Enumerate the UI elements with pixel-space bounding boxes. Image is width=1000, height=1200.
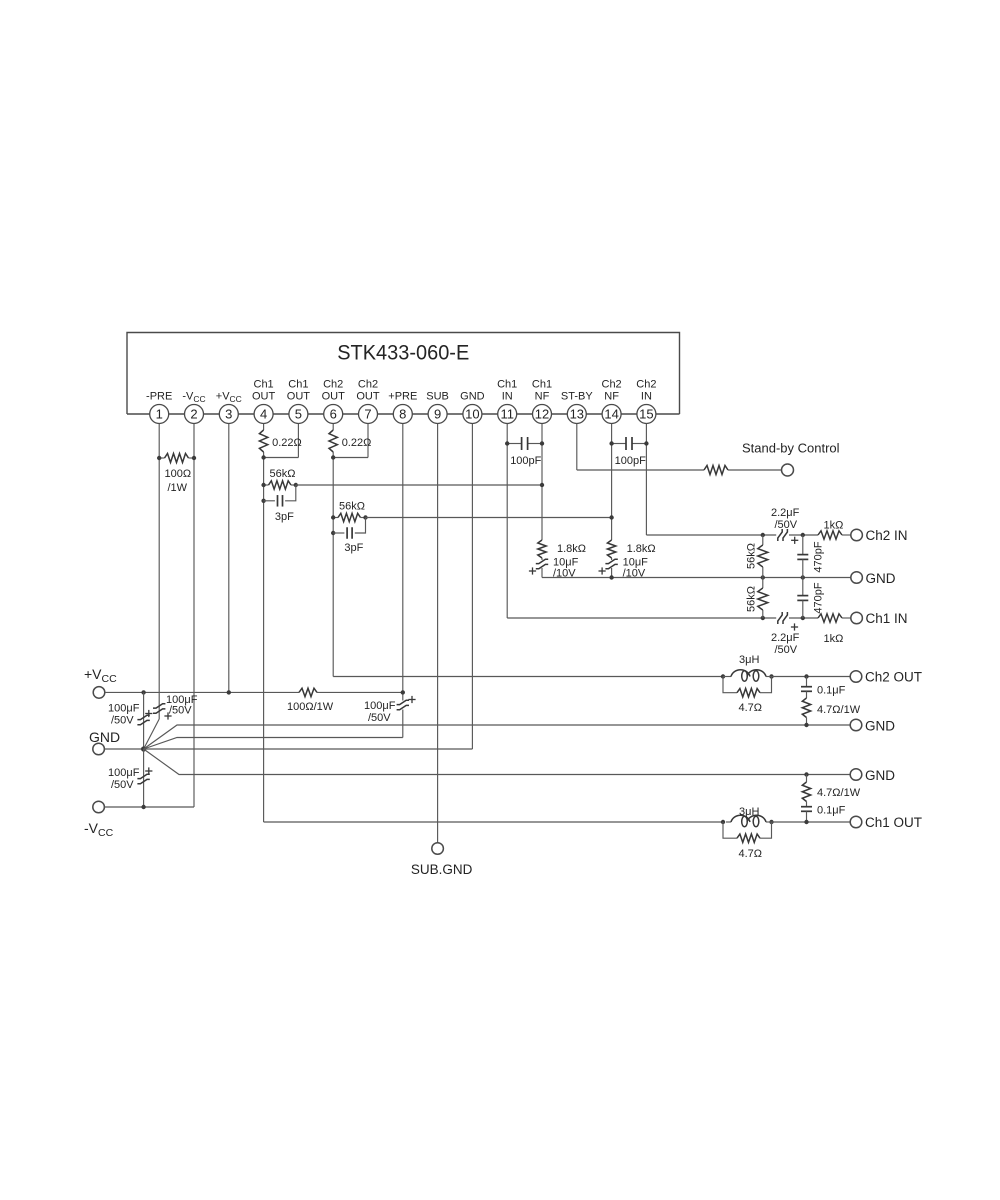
svg-text:Ch2 IN: Ch2 IN [866, 528, 908, 543]
svg-text:100Ω: 100Ω [165, 468, 192, 480]
svg-text:OUT: OUT [252, 391, 276, 403]
svg-text:470pF: 470pF [813, 541, 825, 572]
svg-text:Ch1: Ch1 [254, 379, 274, 391]
svg-text:3μH: 3μH [739, 806, 759, 818]
svg-text:56kΩ: 56kΩ [339, 501, 365, 513]
svg-text:2.2μF: 2.2μF [771, 507, 800, 519]
svg-text:56kΩ: 56kΩ [745, 543, 757, 569]
svg-text:100pF: 100pF [615, 455, 646, 467]
svg-text:Stand-by Control: Stand-by Control [742, 441, 840, 456]
svg-text:/50V: /50V [111, 715, 134, 727]
svg-text:IN: IN [641, 391, 652, 403]
svg-text:Ch1: Ch1 [497, 379, 517, 391]
svg-text:2.2μF: 2.2μF [771, 632, 800, 644]
svg-text:/50V: /50V [368, 712, 391, 724]
svg-text:Ch2: Ch2 [323, 379, 343, 391]
svg-text:3pF: 3pF [275, 511, 294, 523]
svg-text:GND: GND [865, 768, 895, 783]
svg-text:12: 12 [535, 407, 549, 422]
svg-text:OUT: OUT [322, 391, 346, 403]
svg-text:8: 8 [399, 407, 406, 422]
svg-text:Ch1 IN: Ch1 IN [866, 611, 908, 626]
svg-text:0.22Ω: 0.22Ω [272, 437, 302, 449]
svg-text:3μH: 3μH [739, 654, 759, 666]
svg-text:NF: NF [604, 391, 619, 403]
svg-text:56kΩ: 56kΩ [270, 468, 296, 480]
svg-text:100Ω/1W: 100Ω/1W [287, 701, 334, 713]
svg-text:56kΩ: 56kΩ [745, 586, 757, 612]
svg-text:0.1μF: 0.1μF [817, 805, 846, 817]
svg-text:OUT: OUT [356, 391, 380, 403]
svg-text:100μF: 100μF [108, 703, 140, 715]
svg-text:Ch1: Ch1 [288, 379, 308, 391]
svg-text:2: 2 [190, 407, 197, 422]
svg-text:4: 4 [260, 407, 267, 422]
svg-text:ST-BY: ST-BY [561, 391, 593, 403]
svg-text:GND: GND [460, 391, 485, 403]
svg-text:9: 9 [434, 407, 441, 422]
svg-text:4.7Ω: 4.7Ω [739, 702, 763, 714]
svg-text:13: 13 [570, 407, 584, 422]
svg-text:4.7Ω/1W: 4.7Ω/1W [817, 787, 861, 799]
svg-text:/50V: /50V [775, 519, 798, 531]
svg-text:1kΩ: 1kΩ [824, 520, 844, 532]
svg-text:+PRE: +PRE [388, 391, 417, 403]
svg-text:6: 6 [330, 407, 337, 422]
svg-text:14: 14 [604, 407, 618, 422]
svg-text:7: 7 [364, 407, 371, 422]
svg-text:GND: GND [865, 719, 895, 734]
svg-text:1kΩ: 1kΩ [824, 633, 844, 645]
svg-text:470pF: 470pF [813, 582, 825, 613]
svg-text:Ch1 OUT: Ch1 OUT [865, 815, 922, 830]
svg-text:SUB.GND: SUB.GND [411, 862, 473, 877]
svg-text:IN: IN [502, 391, 513, 403]
svg-text:NF: NF [535, 391, 550, 403]
svg-text:1.8kΩ: 1.8kΩ [627, 543, 656, 555]
svg-text:Ch2 OUT: Ch2 OUT [865, 670, 922, 685]
svg-text:5: 5 [295, 407, 302, 422]
svg-text:0.22Ω: 0.22Ω [342, 437, 372, 449]
svg-text:GND: GND [866, 571, 896, 586]
svg-text:/50V: /50V [111, 779, 134, 791]
svg-text:100pF: 100pF [510, 455, 541, 467]
svg-text:-PRE: -PRE [146, 391, 172, 403]
svg-text:4.7Ω: 4.7Ω [739, 848, 763, 860]
svg-text:STK433-060-E: STK433-060-E [337, 341, 469, 365]
svg-text:/50V: /50V [775, 644, 798, 656]
svg-text:Ch2: Ch2 [636, 379, 656, 391]
svg-text:1.8kΩ: 1.8kΩ [557, 543, 586, 555]
svg-text:3pF: 3pF [344, 542, 363, 554]
svg-text:100μF: 100μF [364, 700, 396, 712]
svg-text:10: 10 [465, 407, 479, 422]
svg-text:Ch1: Ch1 [532, 379, 552, 391]
svg-text:100μF: 100μF [108, 767, 140, 779]
svg-text:Ch2: Ch2 [358, 379, 378, 391]
svg-text:SUB: SUB [426, 391, 449, 403]
svg-text:OUT: OUT [287, 391, 311, 403]
svg-text:3: 3 [225, 407, 232, 422]
svg-text:4.7Ω/1W: 4.7Ω/1W [817, 704, 861, 716]
svg-text:0.1μF: 0.1μF [817, 685, 846, 697]
svg-text:1: 1 [156, 407, 163, 422]
svg-text:15: 15 [639, 407, 653, 422]
svg-text:11: 11 [500, 407, 514, 422]
svg-text:/1W: /1W [168, 482, 188, 494]
svg-text:GND: GND [89, 729, 120, 745]
svg-text:Ch2: Ch2 [602, 379, 622, 391]
svg-text:/50V: /50V [169, 705, 192, 717]
